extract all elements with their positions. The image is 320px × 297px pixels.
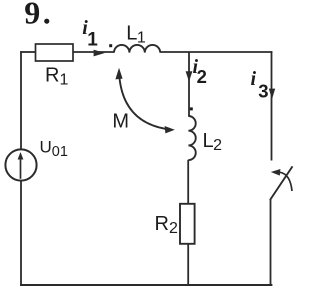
inductor L1 xyxy=(114,45,160,53)
arrow i2 xyxy=(186,71,193,82)
wire bottom horizontal xyxy=(20,284,272,286)
polarity dot L2 xyxy=(190,107,193,110)
switch motion arrow xyxy=(271,169,292,191)
wire L1 to right corner xyxy=(160,51,272,53)
resistor R2 xyxy=(180,204,195,244)
arrow i1 xyxy=(94,50,105,57)
switch blade xyxy=(270,166,293,200)
wire right vertical upper xyxy=(271,51,273,160)
wire R1 to L1 xyxy=(73,51,114,53)
mutual inductance arrow M xyxy=(115,68,174,134)
wire left vertical upper xyxy=(20,51,22,149)
svg-text:2: 2 xyxy=(197,66,207,87)
arrow i3 xyxy=(269,89,275,100)
wire R2 to bottom xyxy=(187,244,189,286)
polarity dot L1 xyxy=(109,44,112,47)
wire L2 to R2 xyxy=(187,160,189,204)
source U01 xyxy=(5,149,36,180)
svg-text:3: 3 xyxy=(258,81,268,102)
resistor R1 xyxy=(36,44,74,61)
wire left vertical lower xyxy=(20,180,22,286)
svg-text:9.: 9. xyxy=(24,0,51,30)
svg-text:1: 1 xyxy=(87,30,98,51)
wire right vertical lower xyxy=(270,199,272,286)
inductor L2 xyxy=(188,116,195,160)
wire top-left horizontal xyxy=(20,51,35,53)
wire middle branch upper xyxy=(188,52,190,117)
svg-text:i: i xyxy=(251,68,257,90)
svg-text:M: M xyxy=(112,111,129,133)
